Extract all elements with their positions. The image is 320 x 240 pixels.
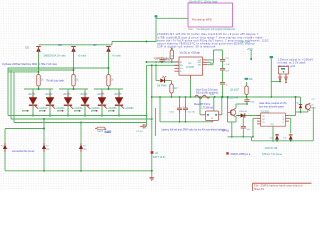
wire anode rail 2 [59,88,88,90]
note battery [162,129,226,132]
svg-text:LTC368 w/f: LTC368 w/f [202,107,214,109]
svg-text:BC327-40: BC327-40 [228,97,239,100]
label Q3 name [228,97,239,100]
svg-text:SMBJ5V0A 1A volts: SMBJ5V0A 1A volts [44,55,67,58]
node rail junction [146,41,148,43]
svg-text:D8 PWR: D8 PWR [157,85,167,88]
wire V1 down [4,152,6,171]
IC U1 LT3045 [179,57,203,75]
svg-text:1N4732 1W: 1N4732 1W [265,147,278,150]
note right 1 [278,59,314,62]
wire gate stub 1 [22,110,29,113]
svg-text:3-phase 240Vac Machine 9kW, 3.: 3-phase 240Vac Machine 9kW, 3.7Ra 7.2A m… [2,62,58,66]
capacitor Cin [155,57,169,62]
transistor Q4 [305,103,310,111]
note duty text [46,79,64,82]
wire rail upper [112,41,157,43]
pin U5 right [285,116,289,122]
title text [254,185,303,188]
label V1 side [1,144,3,147]
zener D11 [269,134,279,142]
wire q3 base col [227,96,229,122]
note right 2 [278,62,307,65]
source V3 [79,143,87,152]
note text below box [188,27,236,31]
svg-text:+SCR5: +SCR5 [97,93,105,96]
wire phase C left drop [13,72,15,123]
label diode note [154,58,171,60]
pin IN [175,62,183,64]
wire c9 drop [242,115,244,127]
wire shunt top [213,97,215,111]
capacitor C6 [220,68,230,82]
wire u5 gnd [272,126,274,141]
note paragraph line 2 [157,35,263,39]
label zener type [265,147,278,150]
wire R4 down [171,95,173,98]
wire u5 out [289,115,296,117]
svg-text:+GCR3b: +GCR3b [73,107,83,110]
wire relay bottom [271,81,281,83]
capacitor C4 [183,96,196,123]
text label Pch tied-up WFD [192,18,212,22]
svg-text:C2 4u7: C2 4u7 [136,131,144,133]
svg-text:1mH: 1mH [210,94,215,96]
pin SET [198,65,207,67]
net label bA0 [105,130,112,134]
label TP12 [240,41,250,44]
note Vout text [196,89,218,95]
svg-text:TLC555: TLC555 [260,110,269,113]
capacitor C5 [220,50,230,68]
wire u5 pin2 link [252,118,257,137]
svg-text:1k: 1k [171,55,173,57]
wire set stub [207,64,214,66]
svg-text:Q3 b337: Q3 b337 [230,89,240,92]
wire gate stub 2 [39,110,45,113]
SCR2 thyristor [45,89,66,116]
wire gnd bus1 [228,136,252,138]
svg-text:1N4148: 1N4148 [239,111,247,113]
wire shunt left [199,96,202,115]
resistor R2 [72,73,79,89]
wire q3 emitter [228,117,237,122]
wire phase B [8,69,74,71]
SCR6 thyristor [114,89,135,116]
wire q3 gnd stub [231,122,233,138]
node phase junctions [38,67,110,73]
note Meas2 [202,107,214,109]
note paragraph line 3 [157,38,269,42]
svg-text:battery full set and 3PM volts: battery full set and 3PM volts for my 4t… [162,129,226,132]
note gate drive [259,102,287,108]
winding a [279,74,281,82]
node +12 tick [270,56,273,58]
source V1 [1,143,9,152]
wire vin riser [155,18,157,42]
label Q3 type [230,89,240,92]
svg-text:6N6(TLC555) is a: 6N6(TLC555) is a [231,153,251,156]
diode D5 [26,47,41,53]
wire gate stub 5 [91,110,98,113]
svg-text:BATT 13.8v: BATT 13.8v [153,156,166,159]
label Q4 [311,104,317,109]
svg-text:+SCR4: +SCR4 [80,93,88,96]
wire gate stub 4 [74,110,81,113]
svg-text:R5 1k: R5 1k [165,59,172,61]
svg-text:TP +12V: TP +12V [240,41,250,44]
note text above box [189,0,218,4]
svg-text:+GC2: +GC2 [97,131,104,133]
wire q3 collector [236,104,247,108]
resistor Rg (gate) [95,127,106,130]
wire gate stub 6 [108,110,115,113]
resistor R4 [170,82,179,95]
wire D7 drop [108,52,110,75]
wire dc bus 3 [14,122,147,124]
svg-text:+GCR5b: +GCR5b [107,107,117,110]
pin ILIM [175,71,183,73]
diode D7 [94,44,111,53]
wire outcap bridge [214,49,223,51]
label R6 net [245,78,249,80]
wire V3 up [80,123,82,144]
svg-text:+SCR2: +SCR2 [45,93,53,96]
wire EN net [147,64,180,66]
capacitor C8 [244,97,255,105]
wire u5 reset [289,118,291,133]
label BATT [153,156,166,159]
label U5 [260,110,269,113]
note zener line [226,152,282,156]
pin GND stub [190,75,192,98]
pin PG [175,68,184,70]
wire q4 link [295,96,308,115]
wire q3 base tap [228,112,231,114]
wire V3 down [80,152,82,172]
wire D5 drop [38,52,40,75]
svg-text:PG: PG [180,68,183,70]
pin U5 left [257,116,261,124]
wire dc- riser [151,65,153,177]
svg-text:LT3045: LT3045 [186,66,195,69]
ground GND1 [149,178,154,181]
resistor R6 [245,79,254,97]
wire D6 drop [73,52,75,75]
SCR1 thyristor [28,89,49,116]
wire Vin to box [156,17,188,19]
capacitor C2 dc [136,123,147,133]
resistor R1 [37,73,44,89]
wire out top [207,59,214,61]
label Rg [97,131,104,133]
LED D8 [160,76,166,83]
svg-text:+GCR6b: +GCR6b [124,107,134,110]
resistor R3 [107,73,114,89]
wire drive line [236,115,261,117]
label D6 value [78,55,87,58]
SCR5 thyristor [97,89,118,116]
wire V2 up [43,119,45,143]
zener D12 [283,135,293,142]
svg-text:Sheet 1/1: Sheet 1/1 [254,188,265,191]
ripple marker [195,94,216,99]
wire dc bus 1 [8,115,147,117]
wire lower rail [160,121,212,123]
wire gate stub 3 [57,110,63,113]
wire mid drop [154,108,156,136]
svg-text:Goo: Goo [188,27,193,31]
wire bus link [251,137,253,141]
wire r-col drop [270,58,272,81]
wire phase B left drop [10,70,12,119]
pin SNS [197,62,207,64]
svg-text:+B: +B [155,152,158,155]
relay U4 [279,67,289,75]
svg-text:turn into discrete parts: turn into discrete parts [259,105,284,108]
wire LED to R [165,81,172,84]
note vref [222,130,230,133]
label Ren ref [165,59,172,61]
svg-text:R1m & 85c ambient: R1m & 85c ambient [196,92,218,95]
svg-text:125mA 7.5v zener: 125mA 7.5v zener [262,153,282,156]
note Meas [194,103,211,106]
svg-text:+SCR1: +SCR1 [28,93,36,96]
wire rail step v [111,42,113,45]
note paragraph line 1 [157,32,259,36]
diode D9 [239,111,247,118]
svg-text:7M off duty bath: 7M off duty bath [46,79,64,82]
node bus junctions [43,115,153,124]
svg-text:Pch tied-up WFD: Pch tied-up WFD [192,18,212,22]
wire shunt right [221,96,223,115]
svg-text:+SCR3: +SCR3 [63,93,71,96]
label +B marker [151,151,159,155]
svg-text:C3P is digital-volt subnet; 30: C3P is digital-volt subnet; 30 is absolu… [157,44,217,48]
svg-text:Vin 5u to +5Vcap: Vin 5u to +5Vcap [180,51,201,55]
SCR4 thyristor [80,89,101,116]
wire phase A [8,67,109,69]
svg-text:Meas BT3 SCL: Meas BT3 SCL [194,103,211,106]
svg-text:+ 1uF: + 1uF [224,64,230,66]
svg-text:+GCR4b: +GCR4b [90,107,100,110]
svg-text:100n: 100n [250,101,256,103]
svg-text:+5 volts: +5 volts [78,55,87,58]
svg-text:10u 25v: 10u 25v [187,111,196,113]
wire right edge drop [311,99,315,141]
pin EN [175,65,184,67]
svg-text:100u: 100u [169,111,175,113]
source V2 [42,143,50,152]
diode D6 [59,44,76,53]
winding b [285,74,287,83]
note source text [12,150,35,153]
power +5V flag [247,48,254,60]
wire dc+ riser [146,65,148,122]
wire V2 down [43,152,45,172]
wire LED branch [156,65,160,80]
note Vin label [180,51,201,55]
note paragraph line 5 [157,44,217,48]
sheet frame line [253,183,312,191]
svg-text:vvv.low-pwr-vr2-supply.info/ac: vvv.low-pwr-vr2-supply.info/ac+dc [197,27,236,31]
note right 3 [278,65,296,68]
wire anode rail 3 [94,88,123,90]
wire anode rail 1 [24,88,53,90]
svg-text:+GCR2b: +GCR2b [55,107,65,110]
wire loop bottom [5,170,152,172]
capacitor C9 [241,126,251,137]
svg-text:somewhat the press: somewhat the press [12,150,35,153]
zener D10 [295,97,302,108]
wire phase A left drop [7,68,9,116]
node Vin label tick [155,15,158,17]
wire gnd bus2 [252,140,314,142]
wire dc bus 2 [11,118,152,120]
SCR3 thyristor [63,89,84,116]
svg-text:+SCR6: +SCR6 [114,93,122,96]
wire top rail [39,44,113,46]
wire sns link [207,61,214,64]
pin OUT [197,60,207,62]
note 3-phase source [2,62,58,66]
wire R6 down [246,96,248,98]
wire r-col to gnd [270,82,272,98]
wire phase C [8,71,39,73]
svg-text:15mW ATC 12Vdc load: 15mW ATC 12Vdc load [189,0,218,4]
transistor Q3 [230,108,236,117]
IC U5 555 [261,113,286,126]
label D5 value [44,55,67,58]
svg-text:bA0: bA0 [105,130,112,134]
sheet text [254,188,265,191]
svg-text:+5 volts: +5 volts [112,55,121,58]
wire cap rail left [159,96,161,122]
svg-text:+GCR1b: +GCR1b [38,107,48,110]
svg-text:+5V0: +5V0 [247,48,254,51]
shunt U3 [202,111,222,122]
resistor Ren [170,48,173,63]
capacitor C3 [169,96,182,123]
wire outcap riser a [213,50,215,63]
wire gnd rail [152,96,301,98]
label LED [157,85,167,88]
wire IN net [146,61,179,63]
capacitor C7 [220,82,229,98]
wire loop top [5,129,44,144]
note paragraph line 4 [157,41,255,45]
graphic note box (magenta) [188,3,233,27]
label D7 value [112,55,121,58]
